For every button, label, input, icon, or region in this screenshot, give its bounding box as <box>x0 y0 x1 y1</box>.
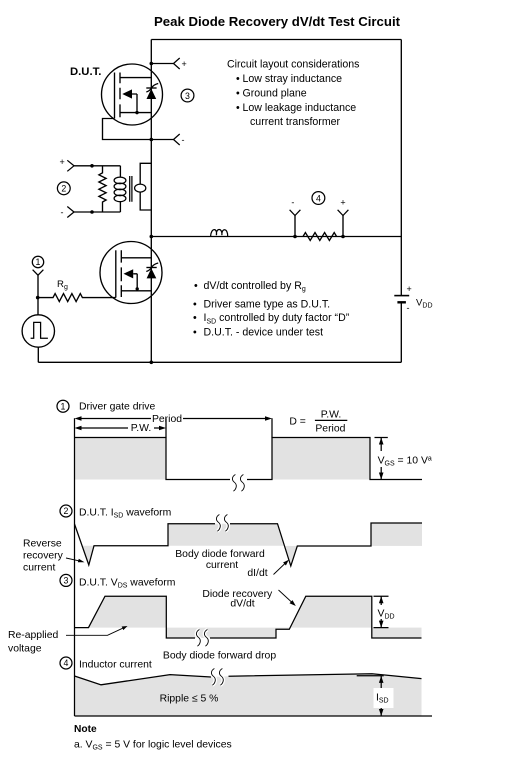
waveform 4 ripple line <box>75 674 422 685</box>
wire gate drive vertical <box>37 275 39 315</box>
svg-text:4: 4 <box>316 193 321 203</box>
svg-text:D.U.T. - device under test: D.U.T. - device under test <box>204 326 324 338</box>
node circled 4 <box>312 192 325 205</box>
svg-text:3: 3 <box>185 91 190 101</box>
wire bottom rail <box>38 361 401 363</box>
node circled 2 (waveform) <box>60 505 72 517</box>
svg-text:Period: Period <box>152 414 182 425</box>
node gate terminal <box>33 270 44 276</box>
svg-text:Circuit layout considerations: Circuit layout considerations <box>227 59 359 71</box>
svg-text:•: • <box>236 88 240 100</box>
svg-text:Body diode forward: Body diode forward <box>175 549 265 560</box>
svg-text:Driver gate drive: Driver gate drive <box>79 402 155 413</box>
arrow VDD level <box>374 596 397 627</box>
svg-text:2: 2 <box>64 506 69 516</box>
arrow re-applied voltage <box>66 626 128 635</box>
svg-text:-: - <box>61 208 64 218</box>
transformer primary - terminal <box>61 207 121 218</box>
wire right rail upper <box>400 40 402 296</box>
svg-text:dV/dt controlled by Rg: dV/dt controlled by Rg <box>204 280 306 293</box>
svg-text:+: + <box>182 59 187 69</box>
node circled 2 <box>57 182 70 195</box>
waveform 3 gray fills <box>89 596 167 627</box>
svg-text:•: • <box>193 326 197 338</box>
svg-text:current: current <box>23 563 55 574</box>
svg-text:+: + <box>60 157 65 167</box>
break marks waveform 1 <box>232 475 244 492</box>
arrow to reverse recovery spike <box>66 558 85 562</box>
node circled 1 <box>32 256 43 267</box>
node junction (drain of driver / inductor wire) <box>150 235 154 239</box>
waveform 4 gray fill <box>75 674 422 716</box>
svg-text:+: + <box>407 284 412 294</box>
waveform 2 outline <box>75 523 423 566</box>
svg-text:4: 4 <box>64 658 69 668</box>
node sense - terminal <box>290 198 301 239</box>
label reverse recovery current <box>23 539 64 574</box>
svg-text:voltage: voltage <box>8 644 42 655</box>
waveform 1 gray pulses <box>75 438 167 480</box>
svg-text:D =: D = <box>289 417 305 428</box>
node gate drive junction <box>36 296 40 300</box>
wire pulse generator to bottom rail <box>37 347 39 362</box>
wire inductor rail <box>151 236 401 238</box>
svg-text:•: • <box>236 73 240 85</box>
svg-text:-: - <box>291 198 294 208</box>
notes bullet list <box>193 280 350 338</box>
svg-text:D.U.T. VDS waveform: D.U.T. VDS waveform <box>79 577 175 589</box>
svg-text:Low stray inductance: Low stray inductance <box>243 73 343 85</box>
current sense resistor <box>303 233 337 241</box>
svg-text:Period: Period <box>315 423 345 434</box>
pulse generator <box>22 315 54 347</box>
svg-text:Low leakage inductance: Low leakage inductance <box>243 102 357 114</box>
svg-text:P.W.: P.W. <box>321 410 342 421</box>
transformer primary + terminal <box>60 157 121 171</box>
svg-text:1: 1 <box>61 401 66 411</box>
break marks waveform 4 <box>211 669 223 686</box>
arrow VGS level <box>375 438 438 480</box>
wire left rail <box>150 40 152 363</box>
node sense + terminal <box>338 198 349 239</box>
battery VDD <box>394 284 432 313</box>
svg-text:ISD controlled by duty factor: ISD controlled by duty factor “D” <box>204 312 350 325</box>
svg-text:•: • <box>194 280 198 292</box>
inductor L <box>211 230 228 237</box>
svg-text:Body diode forward drop: Body diode forward drop <box>163 651 276 662</box>
waveform 1 edge guides <box>166 418 272 437</box>
svg-text:Ripple ≤ 5 %: Ripple ≤ 5 % <box>160 694 219 705</box>
svg-text:dI/dt: dI/dt <box>247 568 267 579</box>
axis (waveforms common vertical) <box>74 418 76 716</box>
circuit layout considerations text <box>227 59 359 129</box>
svg-text:recovery: recovery <box>23 551 64 562</box>
svg-text:Driver same type as D.U.T.: Driver same type as D.U.T. <box>204 298 331 310</box>
svg-text:Ground plane: Ground plane <box>243 88 307 100</box>
node - terminal (source sense) <box>150 134 185 145</box>
svg-text:+: + <box>340 198 345 208</box>
svg-text:Peak Diode Recovery dV/dt Test: Peak Diode Recovery dV/dt Test Circuit <box>154 14 401 29</box>
break marks waveform 3 <box>196 630 208 647</box>
node circled 4 (waveform) <box>60 657 72 669</box>
transformer primary coil <box>114 166 126 212</box>
svg-text:1: 1 <box>36 257 41 267</box>
arrow P.W. <box>75 423 167 434</box>
svg-text:dV/dt: dV/dt <box>230 599 254 610</box>
svg-text:-: - <box>407 303 410 313</box>
svg-text:current: current <box>206 560 238 571</box>
break marks waveform 2 <box>216 515 228 532</box>
waveform 1 outline <box>75 438 423 480</box>
node circled 1 (waveform) <box>57 400 69 412</box>
label re-applied voltage <box>8 630 58 655</box>
label D = P.W./Period <box>289 410 347 435</box>
svg-text:•: • <box>236 102 240 114</box>
label diode recovery dV/dt <box>202 589 273 610</box>
node circled 3 (waveform) <box>60 574 72 586</box>
svg-text:P.W.: P.W. <box>131 423 152 434</box>
arrow to recovery ramp <box>279 590 296 606</box>
arrow ISD level <box>357 676 394 716</box>
arrow Period <box>75 414 273 425</box>
svg-text:3: 3 <box>64 576 69 586</box>
waveform 4 baseline <box>75 715 433 717</box>
label body diode forward current <box>175 549 265 571</box>
svg-text:•: • <box>193 312 197 324</box>
node circled 3 <box>181 89 194 102</box>
wire right rail lower <box>400 302 402 362</box>
arrow to dI/dt slope <box>274 560 289 575</box>
resistor (transformer damping) <box>99 166 106 212</box>
svg-text:Re-applied: Re-applied <box>8 630 58 641</box>
svg-text:Reverse: Reverse <box>23 539 62 550</box>
node bottom rail junction <box>150 361 154 365</box>
svg-text:current transformer: current transformer <box>250 116 341 128</box>
waveform 3 outline <box>75 596 422 638</box>
wire gate-source loop of D.U.T. <box>103 119 152 140</box>
transistor D.U.T. (upper MOSFET) <box>102 64 163 125</box>
svg-text:Note: Note <box>74 724 97 735</box>
svg-text:D.U.T.: D.U.T. <box>70 66 101 78</box>
transformer secondary coil <box>135 163 152 210</box>
transformer core <box>130 176 132 202</box>
resistor Rg <box>38 279 116 302</box>
wire top rail <box>151 39 401 41</box>
svg-text:Inductor current: Inductor current <box>79 660 152 671</box>
node + terminal (drain sense) <box>150 58 187 69</box>
svg-text:•: • <box>193 298 197 310</box>
svg-text:D.U.T. ISD waveform: D.U.T. ISD waveform <box>79 507 171 519</box>
svg-text:-: - <box>182 135 185 145</box>
transistor driver (lower MOSFET) <box>100 242 162 304</box>
waveform 2 gray fills <box>82 546 94 565</box>
svg-text:2: 2 <box>61 184 66 194</box>
